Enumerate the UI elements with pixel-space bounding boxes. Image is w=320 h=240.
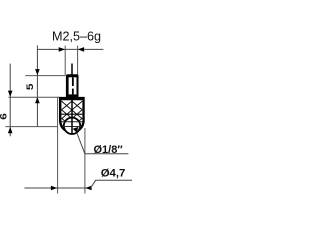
arrow down for 6 dim (8, 91, 13, 97)
svg-text:5: 5 (25, 83, 35, 90)
svg-text:Ø4,7: Ø4,7 (101, 167, 126, 179)
dia 4,7 arrow right (points left) (85, 186, 91, 191)
section hatch lattice (61, 101, 82, 129)
dim line for 5 (vertical) (36, 45, 38, 126)
dia 4,7 leader (91, 180, 132, 188)
thread dimension line (37, 48, 103, 50)
svg-text:6: 6 (0, 113, 9, 120)
body cavity (white) (61, 100, 82, 132)
ball leader line (77, 133, 85, 154)
thread dim arrow right (points left) (78, 47, 84, 52)
stem (threaded shank) (66, 74, 79, 97)
arrow up for 6 dim (8, 127, 13, 133)
svg-text:Ø1/8″: Ø1/8″ (94, 144, 124, 156)
arrow down for 5 dim (35, 69, 40, 75)
ball seat chord line (61, 121, 82, 123)
centerline lower segment (body and ball) (71, 97, 73, 134)
dia 4,7 arrow left (points right) (51, 186, 57, 191)
thread dim arrow left (points right) (59, 47, 65, 52)
diameter extension line left (x=57.6) (57, 97, 59, 193)
centerline upper segment (above stem) (71, 64, 73, 75)
ball horizontal center mark (63, 126, 82, 128)
dim line for 6 (vertical) (9, 64, 11, 137)
extension line at stem top (y=75.6) (25, 75, 65, 77)
body (holder, sectioned) (59, 97, 85, 134)
ball (contact tip) (64, 118, 80, 134)
thread extension line left (64, 46, 66, 76)
svg-text:M2,5–6g: M2,5–6g (52, 30, 101, 44)
diameter extension line right (x=84.9) (84, 128, 86, 194)
extension line at body top (y=97.2) (9, 96, 60, 98)
extension line at ball center (y=126.6) (5, 126, 57, 128)
arrow up for 5 dim (35, 97, 40, 103)
ball leader shelf (85, 153, 128, 155)
hatch separator line (61, 113, 82, 115)
ball leader arrow (73, 127, 79, 133)
dia 4,7 dimension line (24, 187, 91, 189)
thread extension line right (77, 46, 79, 76)
